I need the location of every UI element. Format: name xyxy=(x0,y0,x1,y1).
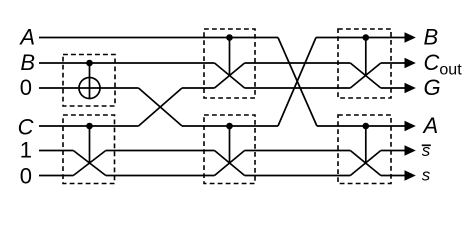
swap gate S5 diagonals in box6 xyxy=(350,151,381,176)
swap gate S2 diagonals in box3 xyxy=(215,63,245,88)
Fredkin F3 control vertical line box4 xyxy=(229,126,231,163)
wire row3 output segment to G arrow xyxy=(381,87,406,89)
wire row3 0 input segment through XOR xyxy=(39,87,139,89)
wire row2 middle segment xyxy=(245,62,351,64)
arrow output Cout xyxy=(405,58,416,68)
control dot Fredkin F4 on row1 xyxy=(363,34,370,41)
wire crossing rows3-4 descending diagonal xyxy=(139,88,183,126)
svg-text:0: 0 xyxy=(20,164,32,189)
svg-text:s: s xyxy=(422,166,431,185)
wire row1 A input segment xyxy=(39,37,278,39)
control dot Fredkin F2 on row1 xyxy=(226,34,233,41)
svg-text:G: G xyxy=(424,75,441,100)
control dot Fredkin F5 on row4 xyxy=(363,123,370,130)
dashed box around Fredkin F5 xyxy=(338,115,391,184)
arrow output sbar xyxy=(405,145,416,155)
dashed box around Fredkin F4 xyxy=(338,29,391,98)
wire row3 segment into middle box xyxy=(182,87,215,89)
svg-text:1: 1 xyxy=(20,138,32,163)
wire crossing rows3-4 ascending diagonal xyxy=(139,88,183,126)
swap gate S1 diagonals in box2 xyxy=(73,151,106,176)
XOR plus horizontal stroke xyxy=(79,87,100,89)
arrow output s xyxy=(405,170,416,180)
svg-text:0: 0 xyxy=(20,75,32,100)
svg-text:A: A xyxy=(422,113,439,138)
wire row2 output segment to Cout arrow xyxy=(381,62,406,64)
wire row6 segment between box4 and box6 xyxy=(245,175,351,177)
wire big crossing row1 to row4 descending diagonal xyxy=(278,38,317,127)
wire row4 output segment to A arrow xyxy=(317,125,406,127)
svg-text:s: s xyxy=(422,141,431,160)
svg-text:B: B xyxy=(424,25,439,50)
wire row3 middle segment xyxy=(245,87,351,89)
dashed box around Fredkin F2 xyxy=(204,29,255,98)
wire big crossing row4 to row1 ascending diagonal xyxy=(278,38,316,127)
wire row2 B input segment xyxy=(39,62,215,64)
dashed box around CNOT G1 xyxy=(63,55,115,107)
dashed box around Fredkin F1 xyxy=(63,115,115,184)
wire row6 0 input segment xyxy=(39,175,73,177)
wire row1 output segment to B arrow xyxy=(316,37,406,39)
arrow output B xyxy=(405,32,416,42)
control dot CNOT G1 on row2 xyxy=(86,60,93,67)
control dot Fredkin F3 on row4 xyxy=(226,123,233,130)
CNOT G1 control vertical line xyxy=(89,63,91,99)
Fredkin F1 control vertical line box2 xyxy=(89,126,91,163)
Fredkin F4 control vertical line box5 xyxy=(365,38,367,76)
Fredkin F2 control vertical line box3 xyxy=(229,38,231,76)
swap gate S3 diagonals in box4 xyxy=(215,151,245,176)
svg-text:A: A xyxy=(18,25,35,50)
wire row5 segment between box4 and box6 xyxy=(245,150,351,152)
XOR plus vertical stroke xyxy=(89,78,91,99)
svg-text:B: B xyxy=(20,50,35,75)
control dot Fredkin F1 on row4 xyxy=(86,123,93,130)
overline of sbar xyxy=(422,144,431,146)
swap gate S4 diagonals in box5 xyxy=(350,63,381,88)
arrow output A xyxy=(405,121,416,131)
dashed box around Fredkin F3 xyxy=(204,115,255,184)
svg-text:C: C xyxy=(18,115,34,140)
wire row5 output segment to sbar arrow xyxy=(381,150,406,152)
wire row5 segment between box2 and box4 xyxy=(106,150,215,152)
wire row4 middle segment xyxy=(182,125,278,127)
XOR target circle of CNOT G1 xyxy=(79,78,100,99)
Fredkin F5 control vertical line box6 xyxy=(365,126,367,163)
wire row6 output segment to s arrow xyxy=(381,175,406,177)
wire row5 1 input segment xyxy=(39,150,73,152)
wire row6 segment between box2 and box4 xyxy=(106,175,215,177)
arrow output G xyxy=(405,83,416,93)
wire row4 C input segment xyxy=(39,125,139,127)
